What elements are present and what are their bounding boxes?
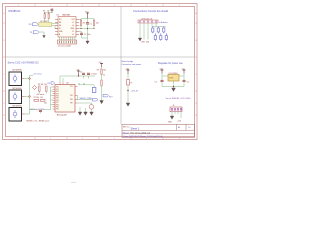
wire J5 pins down	[172, 112, 181, 118]
servo M2 label	[13, 88, 23, 90]
label +5V servo	[33, 72, 42, 75]
ground mcu left	[78, 107, 82, 115]
svg-text:SERVO_1 PWM: SERVO_1 PWM	[30, 109, 44, 111]
svg-text:REV 1.0: REV 1.0	[123, 127, 129, 129]
ground below TX	[43, 34, 46, 38]
svg-text:3: 3	[82, 138, 83, 140]
svg-text:PD5: PD5	[56, 98, 59, 100]
resistor R3	[80, 20, 85, 26]
svg-text:Regulate for power use: Regulate for power use	[158, 62, 183, 65]
svg-text:DE: DE	[59, 25, 61, 27]
svg-text:SERVO_PWM: SERVO_PWM	[80, 98, 93, 100]
svg-text:PC0: PC0	[70, 86, 73, 88]
title block file row	[123, 131, 151, 134]
svg-text:VI VO: VI VO	[169, 78, 174, 80]
servo M2	[9, 90, 25, 104]
power +5V mcu top	[76, 69, 80, 76]
svg-text:5: 5	[146, 138, 147, 140]
wire TX to junction	[39, 32, 44, 34]
resistor R1	[43, 11, 45, 23]
section title motor bridge	[122, 60, 142, 66]
svg-text:6: 6	[179, 5, 180, 7]
U1 left pin names	[59, 19, 63, 36]
svg-text:6: 6	[179, 138, 180, 140]
junction servo bus	[28, 77, 30, 97]
svg-text:R2: R2	[47, 11, 49, 13]
terminal D5	[160, 33, 162, 41]
servo M3	[9, 108, 25, 122]
frame zone ticks	[3, 4, 198, 140]
wire J2 pin1 down	[139, 23, 141, 38]
terminal D4	[154, 33, 156, 41]
title block sheet name	[123, 126, 190, 131]
junction motor column	[127, 90, 128, 91]
svg-text:Connector and power: Connector and power	[122, 63, 142, 66]
jumper JP1	[92, 85, 96, 93]
svg-text:J1 Conn_01x08: J1 Conn_01x08	[58, 46, 71, 48]
svg-text:D13: D13	[146, 42, 149, 44]
U1 right pins	[76, 20, 79, 35]
connector J2	[138, 18, 158, 23]
svg-text:4: 4	[114, 5, 115, 7]
section title servo	[8, 61, 40, 65]
capacitor C3	[155, 80, 164, 83]
svg-text:PB1: PB1	[56, 107, 59, 109]
svg-text:PD3: PD3	[56, 93, 59, 95]
svg-text:PD2: PD2	[56, 91, 59, 93]
connector J1	[58, 40, 77, 48]
svg-text:PB3: PB3	[70, 95, 73, 97]
servo value text row	[27, 120, 50, 122]
U2 left pins	[53, 87, 56, 109]
svg-text:A4: A4	[178, 126, 180, 129]
junction mcu rail	[78, 75, 79, 76]
svg-text:C4: C4	[187, 81, 189, 83]
wire J2 pin4	[151, 23, 153, 27]
svg-text:R7 10k: R7 10k	[34, 97, 40, 99]
resistor R9 reset	[97, 67, 106, 77]
connector J5 label	[173, 105, 175, 107]
terminal D1	[152, 27, 154, 34]
terminal D6	[165, 33, 167, 41]
svg-text:Motor bridge: Motor bridge	[122, 60, 135, 63]
wire reg right	[179, 74, 184, 81]
wire reg left	[162, 74, 168, 81]
transistor Q1	[78, 103, 94, 112]
capacitor C7	[87, 73, 97, 75]
U2 right pin names	[70, 86, 73, 105]
svg-text:1k: 1k	[103, 75, 105, 77]
svg-text:ATmega328: ATmega328	[57, 114, 67, 117]
section divider horizontal	[6, 56, 195, 58]
wire bus to mcu	[39, 87, 52, 110]
op IC U2 mcu	[55, 82, 75, 116]
terminal D2	[157, 27, 159, 34]
resistor R5	[38, 84, 44, 92]
ground right of U1	[86, 41, 89, 44]
wire J2 pin3 down	[146, 23, 149, 44]
title block date row	[124, 135, 163, 138]
svg-text:C3: C3	[155, 81, 157, 83]
ground transistor	[90, 112, 94, 115]
label SERVO purple	[30, 109, 44, 111]
wire power to resistors	[45, 12, 52, 14]
svg-text:Connections from/to the shield: Connections from/to the shield	[133, 9, 169, 13]
svg-text:MG90S + 5V + RS485 servo: MG90S + 5V + RS485 servo	[27, 120, 50, 122]
svg-text:R3: R3	[83, 23, 85, 25]
section title shield	[133, 9, 169, 13]
global label RX	[29, 23, 39, 26]
svg-text:R8: R8	[41, 97, 43, 99]
svg-text:Date: 2021-05-12 Sheet: 1/1: Date: 2021-05-12 Sheet: 1/1 KiCad E.D.A.	[124, 135, 163, 138]
section title RS485-01	[9, 9, 22, 13]
svg-text:B: B	[73, 31, 74, 33]
label +12V motor	[131, 91, 139, 93]
power +5V reset column	[99, 62, 104, 67]
capacitor C2	[79, 32, 90, 37]
wire opto to IC A	[52, 23, 58, 28]
svg-text:PB0: PB0	[56, 104, 59, 106]
junction reg bottom	[173, 86, 174, 87]
wire mcu top pins	[79, 83, 94, 85]
svg-text:1: 1	[18, 138, 19, 140]
svg-text:Servo 35A-5B +12V GND: Servo 35A-5B +12V GND	[166, 97, 191, 100]
svg-text:1: 1	[18, 5, 19, 7]
svg-text:sheet: sheet	[71, 181, 77, 184]
svg-text:C7 100n: C7 100n	[91, 73, 97, 75]
servo M1 label	[13, 70, 23, 72]
svg-text:F1: F1	[131, 83, 133, 85]
wire to ground right	[82, 29, 88, 42]
svg-text:J5: J5	[173, 105, 175, 107]
wire servo pwm out	[78, 96, 93, 100]
svg-text:PB2: PB2	[56, 109, 59, 111]
capacitor C6	[80, 71, 85, 74]
svg-text:Sheet 1: Sheet 1	[131, 128, 140, 131]
capacitor C4	[183, 80, 189, 83]
svg-text:R1: R1	[43, 11, 45, 13]
terminal D3	[163, 27, 165, 34]
capacitor C5	[39, 110, 42, 113]
svg-text:2: 2	[50, 138, 51, 140]
svg-text:120: 120	[96, 23, 99, 25]
U2 top pins	[60, 82, 84, 85]
power +5V top-left	[50, 8, 54, 13]
svg-text:PD7: PD7	[56, 102, 59, 104]
ground motor column	[126, 103, 130, 106]
frame zone numbers	[3, 5, 197, 140]
wire J2 pin5	[152, 23, 166, 27]
text +5V servo red	[36, 94, 44, 96]
svg-text:Servo CO2 +5V RS485 O2: Servo CO2 +5V RS485 O2	[8, 61, 40, 65]
wire servo pwm row	[30, 109, 51, 111]
svg-text:B: B	[73, 22, 74, 24]
wire motor column top	[127, 74, 129, 80]
ground J5	[168, 116, 174, 124]
wire reg bottom	[162, 81, 184, 88]
svg-text:10k: 10k	[44, 102, 47, 104]
svg-text:PD0: PD0	[56, 87, 59, 89]
svg-text:C2 100n: C2 100n	[84, 34, 90, 36]
section title regulator	[158, 62, 183, 65]
wire mid rail	[79, 26, 94, 29]
global label SERVO_PWM	[80, 98, 99, 101]
svg-text:R6: R6	[45, 84, 47, 86]
svg-text:PD4: PD4	[56, 96, 59, 98]
power +12V reg	[159, 68, 164, 73]
svg-text:PD6: PD6	[56, 100, 59, 102]
section divider vertical	[120, 7, 122, 125]
label servo power purple	[166, 97, 191, 100]
power VCC right	[85, 11, 89, 18]
svg-text:PD1: PD1	[56, 89, 59, 91]
page caption below sheet	[71, 181, 77, 184]
wire servo bus	[25, 76, 34, 115]
servo M1	[9, 72, 25, 86]
U2 left pin names	[56, 87, 59, 111]
wire motor column mid	[127, 85, 129, 103]
resistor R10	[101, 75, 102, 96]
svg-text:RST: RST	[142, 42, 145, 44]
U1 right pin names	[71, 19, 76, 36]
wire VCC rail	[79, 19, 94, 21]
svg-text:10k: 10k	[103, 70, 106, 72]
svg-text:to Arduino: to Arduino	[159, 21, 168, 24]
ground mcu mid	[84, 108, 88, 115]
power +5V reg	[182, 68, 186, 73]
svg-text:R9: R9	[97, 70, 99, 72]
resistor R2	[47, 11, 49, 25]
U1 bottom wires to J1	[60, 37, 75, 40]
servo M3 label	[13, 106, 23, 108]
regulator U3	[168, 73, 179, 81]
global label TX	[30, 31, 40, 34]
global label RX mcu	[48, 82, 55, 85]
resistor R6	[45, 84, 48, 92]
svg-text:+5V servo: +5V servo	[36, 94, 44, 96]
svg-text:PB4: PB4	[70, 99, 73, 101]
power +12V motor	[125, 68, 130, 74]
svg-text:M1 MG90S: M1 MG90S	[13, 70, 23, 72]
sheet frame outer	[3, 4, 198, 140]
label to Arduino	[159, 21, 168, 24]
svg-text:+5V servo: +5V servo	[33, 72, 42, 75]
svg-text:4: 4	[114, 138, 115, 140]
ground reset column	[100, 96, 104, 104]
svg-text:+12V_M: +12V_M	[131, 91, 139, 93]
wire J2 pin2 down	[142, 23, 145, 44]
svg-text:File: servo-shield.sch: File: servo-shield.sch	[131, 131, 151, 134]
diode D7	[33, 86, 37, 90]
resistor R7 row	[34, 97, 47, 105]
U2 right pins	[75, 87, 78, 104]
svg-text:RE: RE	[59, 22, 61, 24]
sheet frame inner	[6, 7, 195, 137]
fuse F1	[127, 80, 133, 86]
title block frame	[122, 124, 195, 137]
op IC U1 MAX485	[57, 13, 77, 37]
opto-isolator U5	[39, 21, 52, 27]
resistor R4	[93, 20, 98, 26]
svg-text:1.0: 1.0	[188, 127, 190, 129]
svg-text:5: 5	[146, 5, 147, 7]
wire mcu top rail	[60, 76, 95, 82]
global label RESET	[103, 94, 113, 98]
U1 left pins	[55, 20, 58, 35]
svg-text:3: 3	[82, 5, 83, 7]
svg-text:R5 10k: R5 10k	[38, 84, 44, 86]
svg-text:2: 2	[50, 5, 51, 7]
svg-text:RS485-01: RS485-01	[9, 9, 22, 13]
svg-text:MAX485: MAX485	[63, 13, 72, 16]
label +12V J5	[177, 121, 182, 123]
junction mid rail	[80, 28, 94, 29]
svg-text:C1: C1	[90, 24, 92, 26]
svg-text:C6: C6	[80, 71, 82, 73]
svg-text:PB5: PB5	[70, 103, 73, 105]
connector J5	[170, 107, 182, 112]
ground regulator	[172, 88, 176, 91]
svg-text:KiCad: KiCad	[123, 132, 130, 134]
ground J2	[138, 38, 141, 41]
capacitor C1	[86, 19, 92, 29]
